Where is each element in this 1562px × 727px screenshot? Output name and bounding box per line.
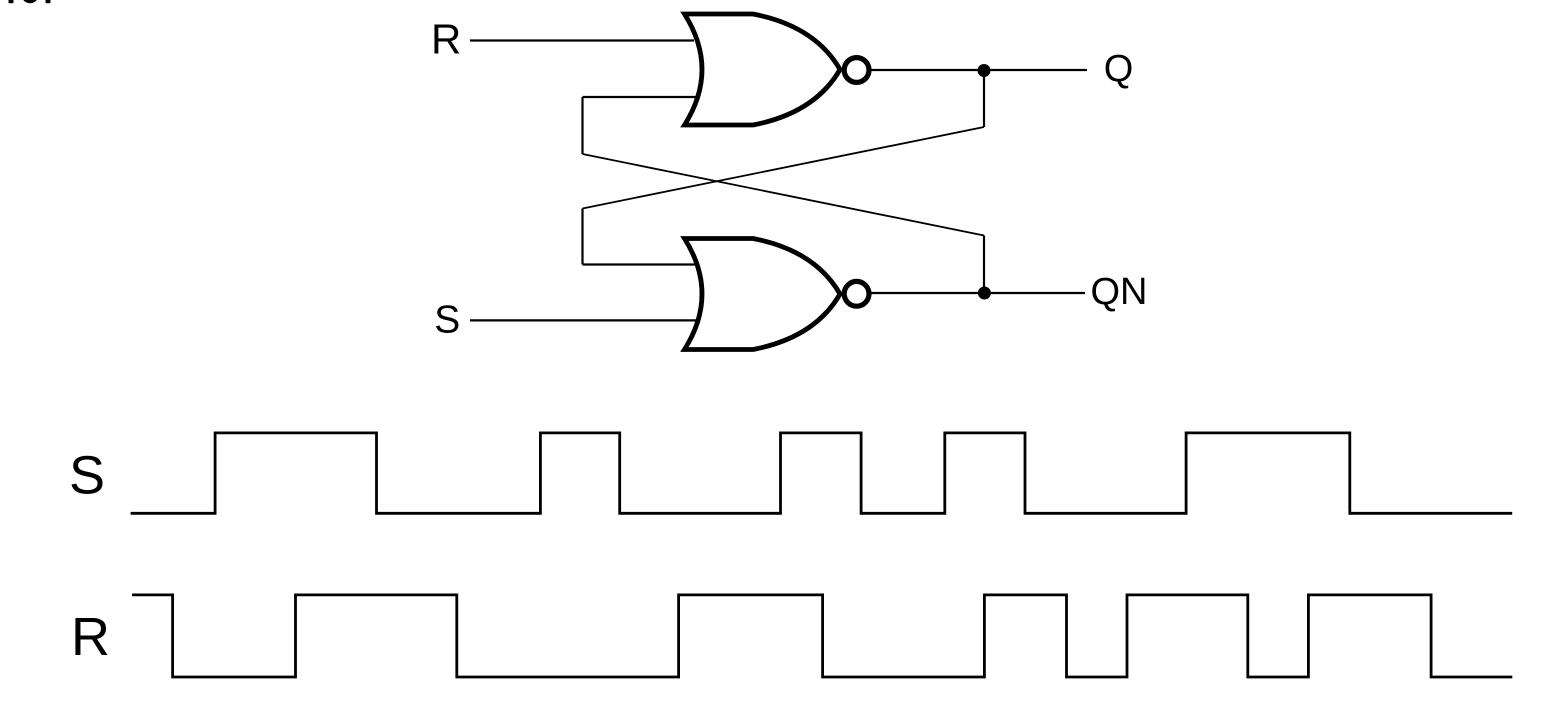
wire U1 output to Q (872, 69, 1088, 71)
wire Q feedback diagonal (583, 127, 985, 209)
wire Q feedback vertical drop (983, 70, 985, 127)
waveform S trace (131, 433, 1513, 513)
wire QN feedback vertical (left upper) (581, 97, 583, 154)
wire QN feedback vertical rise (983, 236, 985, 294)
svg-text:S: S (69, 446, 105, 506)
node QN junction dot (978, 287, 991, 300)
waveform R trace (132, 595, 1512, 677)
wire R input to gate U1 (470, 39, 694, 41)
wire QN feedback diagonal (583, 154, 985, 236)
wire S input to gate U2 (470, 319, 696, 321)
svg-text:R: R (431, 16, 461, 63)
wire Q feedback vertical to bottom gate (581, 209, 583, 265)
nor gate U1 (top) body (685, 14, 841, 125)
node Q junction dot (978, 64, 991, 77)
nor gate U2 (bottom) body (685, 239, 841, 350)
nor gate U2 inversion bubble (844, 281, 869, 306)
svg-text:R: R (71, 607, 110, 667)
svg-text:S: S (434, 299, 460, 342)
svg-text:QN: QN (1091, 271, 1148, 313)
wire U2 output to QN (872, 292, 1086, 294)
nor gate U1 inversion bubble (844, 58, 869, 83)
wire QN feedback horizontal into U1 input (583, 96, 697, 98)
wire Q feedback into U2 input (583, 263, 697, 265)
svg-text:Q: Q (1104, 48, 1134, 90)
cropped text fragment top-left (9, 0, 51, 3)
